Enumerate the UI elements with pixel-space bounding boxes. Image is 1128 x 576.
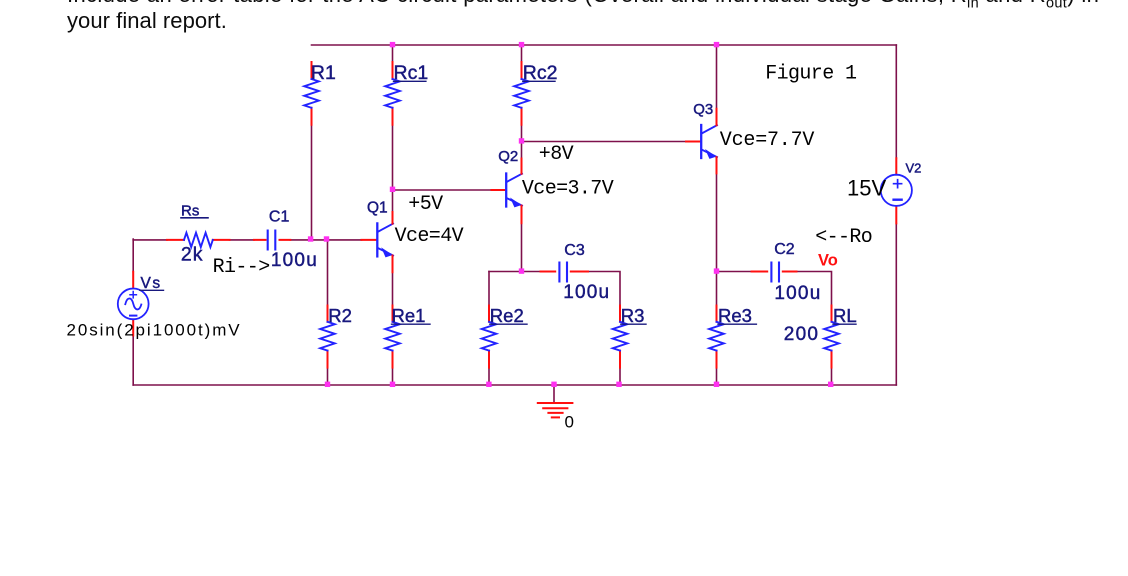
transistor Q1: [362, 199, 394, 272]
svg-text:C1: C1: [269, 209, 290, 226]
wire top bus: [312, 44, 897, 46]
resistor R1: [304, 62, 336, 125]
wire input segment Vs to Rs: [133, 239, 167, 241]
wire Q1 emitter to Re1: [392, 272, 394, 305]
wire Rc1 top stub: [392, 45, 394, 63]
node dot top bus Rc1: [390, 42, 395, 47]
wire segment Rs to C1: [230, 239, 255, 241]
wire right edge lower (from V2 to bottom bus): [895, 223, 897, 385]
resistor R2: [320, 305, 352, 368]
node dot top bus Rc2: [519, 42, 524, 47]
wire Q2 emitter down to node B: [521, 223, 523, 271]
label +8V: [539, 143, 574, 166]
wire Re2 column: [488, 272, 490, 306]
source V2: [847, 158, 921, 223]
resistor Re3: [709, 305, 756, 368]
wire left edge upper (input corner to Vs): [132, 239, 134, 272]
resistor RL: [784, 305, 857, 368]
resistor Rc1: [385, 62, 428, 125]
svg-text:C3: C3: [564, 242, 585, 259]
wire segment C1 to node A and Q1 base: [290, 239, 361, 241]
label Vce=7.7V: [720, 129, 815, 152]
capacitor C2: [752, 241, 822, 304]
svg-text:Q2: Q2: [498, 148, 518, 165]
svg-text:R1: R1: [311, 62, 336, 84]
wire Rc2 to +8V node: [521, 125, 523, 142]
wire C2 to RL corner: [797, 272, 832, 306]
svg-text:Vce=7.7V: Vce=7.7V: [720, 129, 815, 152]
node dot Q2 emitter C3: [519, 268, 524, 273]
node dot top bus Q3: [714, 42, 719, 47]
node dot input-R2: [324, 236, 329, 241]
resistor R3: [613, 305, 646, 368]
wire C3 to R3 corner: [588, 272, 620, 306]
wire right edge upper (to V2): [895, 45, 897, 158]
wire R2 bottom: [327, 368, 329, 385]
svg-text:Rc1: Rc1: [394, 62, 429, 84]
node dot +8V: [519, 138, 524, 143]
node dot bottom Re2: [486, 382, 491, 387]
wire node B left to Re2 corner: [489, 271, 522, 273]
svg-text:+5V: +5V: [408, 193, 443, 216]
svg-text:<--Ro: <--Ro: [815, 226, 872, 249]
svg-text:Rs: Rs: [181, 202, 199, 219]
label Ro arrow: [815, 226, 872, 249]
label Vce=3.7V: [522, 178, 614, 201]
label +5V: [408, 193, 443, 216]
wire node B right to C3: [522, 271, 541, 273]
resistor Rc2: [514, 62, 557, 125]
wire ground stem: [553, 385, 555, 403]
svg-text:+8V: +8V: [539, 143, 574, 166]
svg-text:2k: 2k: [181, 244, 204, 266]
wire +5V horizontal to Q2 base: [393, 189, 492, 191]
svg-text:Vo: Vo: [818, 252, 838, 270]
svg-text:Vs: Vs: [141, 275, 162, 292]
svg-text:V2: V2: [906, 160, 922, 175]
node dot bottom R2: [325, 382, 330, 387]
ground 0: [538, 403, 574, 431]
svg-text:0: 0: [565, 412, 574, 431]
wire Re3 column: [716, 272, 718, 306]
wire R2 column upper: [327, 240, 329, 306]
svg-text:Rc2: Rc2: [523, 62, 558, 84]
label Vo: [818, 252, 838, 270]
transistor Q3: [686, 101, 717, 173]
svg-text:Figure 1: Figure 1: [765, 62, 857, 85]
wire left edge lower (Vs to bottom bus): [132, 336, 134, 386]
svg-text:Ri-->: Ri-->: [213, 256, 270, 279]
capacitor C3: [541, 242, 611, 303]
wire Q3 collector column from top bus: [716, 45, 718, 109]
wire +8V horizontal to Q3 base: [522, 141, 687, 143]
node dot bottom RL: [828, 382, 833, 387]
svg-text:100u: 100u: [774, 283, 821, 304]
svg-text:Re2: Re2: [490, 305, 524, 326]
resistor Re1: [385, 305, 430, 368]
svg-text:20sin(2pi1000t)mV: 20sin(2pi1000t)mV: [67, 321, 242, 340]
svg-text:Q1: Q1: [367, 199, 388, 216]
svg-text:C2: C2: [774, 241, 795, 258]
node dot +5V: [390, 187, 395, 192]
node dot Q3 emitter C2: [714, 268, 719, 273]
resistor Re2: [482, 305, 527, 368]
label Figure 1: [765, 62, 857, 85]
wire node C right to C2: [717, 271, 752, 273]
svg-text:RL: RL: [833, 305, 857, 326]
wire Re3 bottom: [716, 368, 718, 385]
wire Rc1 to +5V node: [392, 125, 394, 190]
wire Q3 emitter down to node C: [716, 173, 718, 271]
wire +8V node to Q2 collector: [521, 142, 523, 159]
wire +5V node to Q1 collector: [392, 190, 394, 212]
svg-text:Q3: Q3: [693, 101, 713, 118]
node dot bottom ground: [551, 382, 556, 387]
wire bottom bus: [133, 384, 896, 386]
resistor Rs: [167, 202, 230, 265]
wire RL bottom: [831, 368, 833, 385]
svg-text:R3: R3: [621, 305, 645, 326]
svg-text:Re3: Re3: [718, 305, 752, 326]
node dot input-R1: [308, 236, 313, 241]
svg-text:R2: R2: [328, 305, 352, 326]
svg-text:100u: 100u: [563, 282, 610, 303]
transistor Q2: [492, 148, 523, 223]
wire Rc2 top stub: [521, 45, 523, 63]
svg-text:Vce=3.7V: Vce=3.7V: [522, 178, 614, 201]
source Vs: [67, 272, 242, 340]
svg-text:Re1: Re1: [392, 305, 426, 326]
wire R3 bottom: [619, 368, 621, 385]
label Vce=4V: [395, 225, 464, 248]
svg-text:Vce=4V: Vce=4V: [395, 225, 464, 248]
wire Re1 bottom: [392, 368, 394, 385]
wire Re2 bottom: [488, 368, 490, 385]
svg-text:15V: 15V: [847, 175, 886, 200]
label Ri arrow: [213, 256, 270, 279]
capacitor C1: [254, 209, 318, 271]
svg-text:100u: 100u: [271, 250, 318, 271]
node dot bottom Re3: [714, 382, 719, 387]
svg-text:200: 200: [784, 324, 819, 345]
wire R1 column lower: [311, 125, 313, 240]
node dot bottom Re1: [390, 382, 395, 387]
node dot bottom R3: [616, 382, 621, 387]
